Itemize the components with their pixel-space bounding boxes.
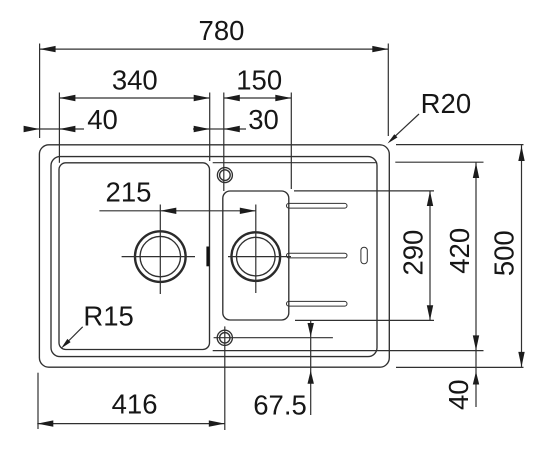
small bowl (223, 191, 289, 320)
drainboard ledge top edge (213, 162, 376, 164)
arrowhead R20 (388, 134, 398, 143)
arrow 290 top (427, 191, 433, 206)
leader R20 (391, 114, 420, 141)
overflow bar (206, 247, 209, 267)
arrow 500 top (518, 146, 524, 161)
dim 40 top tail left (25, 128, 40, 130)
arrow 780 left (40, 46, 56, 52)
dim 67.5 upper tail (310, 321, 312, 415)
dim 290 line (429, 191, 431, 320)
svg-text:R20: R20 (421, 88, 471, 119)
bottom hole horizontal centerline (214, 337, 333, 339)
svg-text:30: 30 (248, 104, 279, 135)
ext small bowl left (223, 93, 225, 192)
drainboard groove 2 (287, 253, 348, 258)
dim 30 middle (210, 128, 224, 130)
small bowl drain outer (232, 232, 281, 281)
arrow 40 top right (59, 126, 75, 132)
dim 500 line (521, 145, 523, 367)
sink rim inner edge (51, 157, 377, 357)
arrow 215 right (240, 208, 256, 214)
ext 290 top (294, 190, 434, 192)
svg-text:416: 416 (112, 389, 158, 420)
ext bowl right (209, 93, 211, 162)
crosshair big drain (122, 256, 195, 258)
ext small drain center (255, 205, 257, 294)
dim 780 line (40, 48, 389, 50)
arrow 30 left (194, 126, 210, 132)
ext small bowl right (290, 93, 292, 190)
arrowhead R15 (61, 339, 71, 349)
big bowl drain outer (135, 231, 186, 282)
svg-text:150: 150 (236, 64, 282, 95)
ext big drain center (159, 205, 161, 295)
arrow 780 right (372, 46, 388, 52)
svg-text:67.5: 67.5 (253, 390, 307, 421)
arrow 40 right up (473, 372, 479, 385)
arrow 416 right (209, 420, 225, 426)
ext left 780 (39, 44, 41, 139)
arrow 420 top (473, 163, 479, 178)
ext right 780 (387, 44, 389, 137)
arrow 290 bottom (427, 305, 433, 320)
ext bowl left (58, 93, 60, 163)
ext 416 left (37, 373, 39, 429)
dim 340 line (59, 97, 209, 99)
ext bottom hole vertical (224, 326, 226, 430)
arrow 67.5 up (308, 371, 314, 384)
ext 420 top (395, 161, 483, 163)
crosshair small drain (228, 256, 291, 258)
svg-text:290: 290 (397, 230, 428, 276)
svg-text:215: 215 (106, 176, 152, 207)
arrow 500 bottom (518, 352, 524, 367)
arrow 340 left (59, 95, 75, 101)
drainboard groove 1 (287, 203, 348, 208)
arrow 215 left (160, 208, 176, 214)
arrow 420 bottom (473, 335, 479, 350)
leader R15 (64, 327, 83, 346)
accessory slot (361, 247, 367, 264)
dim 40 right tail (475, 350, 477, 407)
ext 500 top (396, 144, 524, 146)
ext 290 bottom (295, 319, 434, 321)
big bowl (59, 163, 210, 350)
dim 420 line (475, 162, 477, 350)
arrow 150 right (275, 95, 291, 101)
bottom hole (217, 330, 232, 345)
svg-text:R15: R15 (83, 301, 133, 332)
arrow 150 left (224, 95, 240, 101)
dim 30 tail right (224, 128, 246, 130)
dim 416 line (37, 423, 225, 425)
svg-text:40: 40 (443, 379, 474, 410)
arrow 67.5 down (308, 323, 314, 337)
dim 150 line (224, 97, 291, 99)
ext 420 bottom (213, 350, 484, 352)
drainboard groove 3 (287, 301, 348, 306)
ext 500 bottom (396, 366, 524, 368)
svg-text:340: 340 (112, 64, 158, 95)
arrow 416 left (37, 420, 53, 426)
arrow 340 right (194, 95, 210, 101)
svg-text:420: 420 (444, 228, 475, 274)
dim 40 top tail right (59, 128, 84, 130)
arrow 30 right (224, 126, 240, 132)
dim 30 tail left (193, 128, 210, 130)
big bowl drain inner (140, 236, 180, 276)
small bowl drain inner (237, 237, 276, 276)
dim 40 top middle (40, 128, 60, 130)
svg-text:500: 500 (489, 230, 520, 276)
arrow 40 top left (24, 126, 40, 132)
sink outer edge (39, 145, 389, 367)
faucet hole (217, 168, 232, 183)
svg-text:780: 780 (199, 15, 245, 46)
dim 215 line (99, 210, 255, 212)
svg-text:40: 40 (87, 104, 118, 135)
